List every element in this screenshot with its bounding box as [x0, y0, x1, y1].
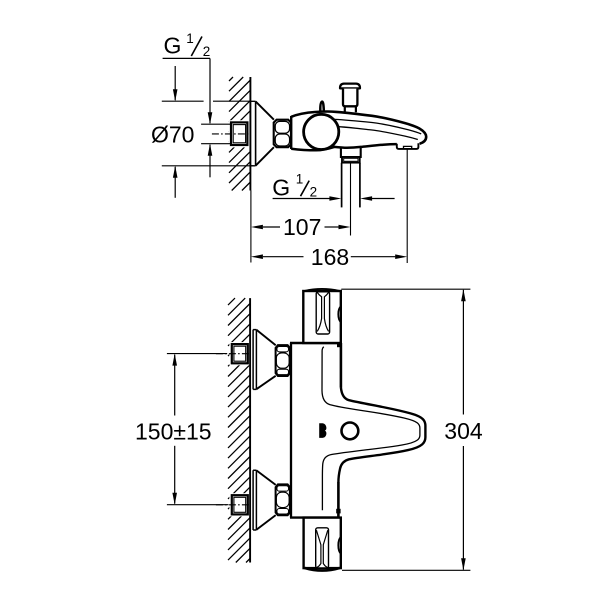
svg-text:2: 2 [310, 184, 318, 199]
dimension 304 extension lines [341, 288, 470, 290]
upper escutcheon back plate [253, 330, 256, 390]
dimension 304 line [461, 289, 466, 301]
upper handle side crescent [338, 306, 341, 322]
upper handle groove slot [316, 292, 329, 334]
svg-text:1: 1 [296, 171, 304, 186]
spout inner line 2 [339, 127, 418, 140]
spout outer contour [338, 388, 425, 483]
control handle circle (side view) [304, 114, 339, 149]
clearance behind lower union [229, 493, 249, 516]
spout outlet extension line [406, 150, 408, 264]
shower hose pipe [341, 163, 343, 208]
lower handle groove funnel [316, 530, 321, 567]
wall surface edge (plan view) [249, 298, 251, 562]
dimension G1/2 top leader line [163, 57, 210, 59]
clearance behind wall union [229, 120, 250, 147]
lower wall union square [232, 495, 248, 514]
temperature lever spike [320, 102, 324, 113]
aerator housing [397, 143, 419, 149]
shower outlet block [341, 147, 361, 157]
svg-text:107: 107 [283, 214, 321, 240]
wall surface edge (top view) [249, 77, 251, 191]
upper union centerline [216, 353, 249, 355]
upper handle body [303, 291, 341, 343]
body left end cap [290, 116, 292, 149]
wall (top view) hatching [229, 77, 250, 191]
svg-text:304: 304 [444, 418, 483, 444]
upper hex nut [276, 345, 290, 376]
body underside line [291, 144, 397, 150]
upper handle groove funnel [317, 292, 322, 331]
diverter knob neck [343, 89, 357, 107]
shower outlet collar [342, 157, 360, 163]
dimension 107 lines [251, 225, 263, 230]
wall surface extension line [250, 191, 252, 263]
dimension D70 arrows [174, 66, 176, 100]
dimension 168 lines [251, 254, 263, 259]
economy stop mark (filled D) [319, 423, 326, 438]
union centerline (dash-dot) [212, 133, 249, 135]
lower handle end cap arc [305, 568, 340, 571]
lower escutcheon back plate [253, 470, 256, 530]
spout inner line 1 [335, 119, 421, 133]
wall (plan view) hatching [228, 298, 250, 562]
svg-text:150±15: 150±15 [135, 419, 212, 445]
diverter knob stem [345, 107, 356, 113]
dimension G1/2 top lower arrow [209, 145, 211, 178]
clearance behind upper union [229, 342, 249, 365]
pipe centerline / 107 extension [350, 163, 352, 236]
upper handle end cap arc [304, 289, 339, 291]
svg-text:G: G [272, 174, 290, 200]
temperature ring button [342, 423, 359, 440]
body bottom shoulder [290, 516, 339, 518]
mixer body top outline and spout nose [291, 111, 426, 143]
lower handle side crescent [338, 537, 341, 554]
svg-text:G: G [164, 33, 182, 59]
svg-text:2: 2 [203, 44, 211, 59]
aerator inner outlet [404, 146, 412, 148]
lower hex nut [276, 484, 290, 515]
upper escutcheon cone [256, 330, 275, 346]
svg-text:1: 1 [186, 31, 194, 46]
upper wall union square [232, 344, 248, 363]
body top shoulder [290, 342, 341, 344]
dimension 150+-15 line [172, 354, 177, 366]
svg-text:Ø70: Ø70 [151, 122, 194, 148]
body right edge below spout [337, 482, 340, 518]
dimension 150+-15 extension lines [167, 353, 227, 355]
lower handle body [304, 518, 341, 569]
body right edge above spout [340, 343, 343, 388]
stop screw mark lower [336, 509, 340, 514]
supply pipe stub lines [201, 123, 231, 125]
lower escutcheon cone [256, 470, 275, 485]
lower union centerline [216, 504, 249, 506]
body column left edge [290, 343, 292, 518]
wall union square (top view) [231, 122, 247, 145]
spout inner contour [322, 347, 420, 510]
svg-text:168: 168 [311, 244, 349, 270]
escutcheon flange (top view) [251, 101, 256, 166]
dimension D70 extension lines [162, 100, 204, 102]
dimension G1/2 middle lines [273, 198, 330, 200]
diverter knob cap [340, 84, 360, 89]
lower handle groove slot [316, 528, 329, 568]
stop screw mark upper [337, 344, 341, 348]
hex connection nut (top view) [274, 120, 291, 148]
